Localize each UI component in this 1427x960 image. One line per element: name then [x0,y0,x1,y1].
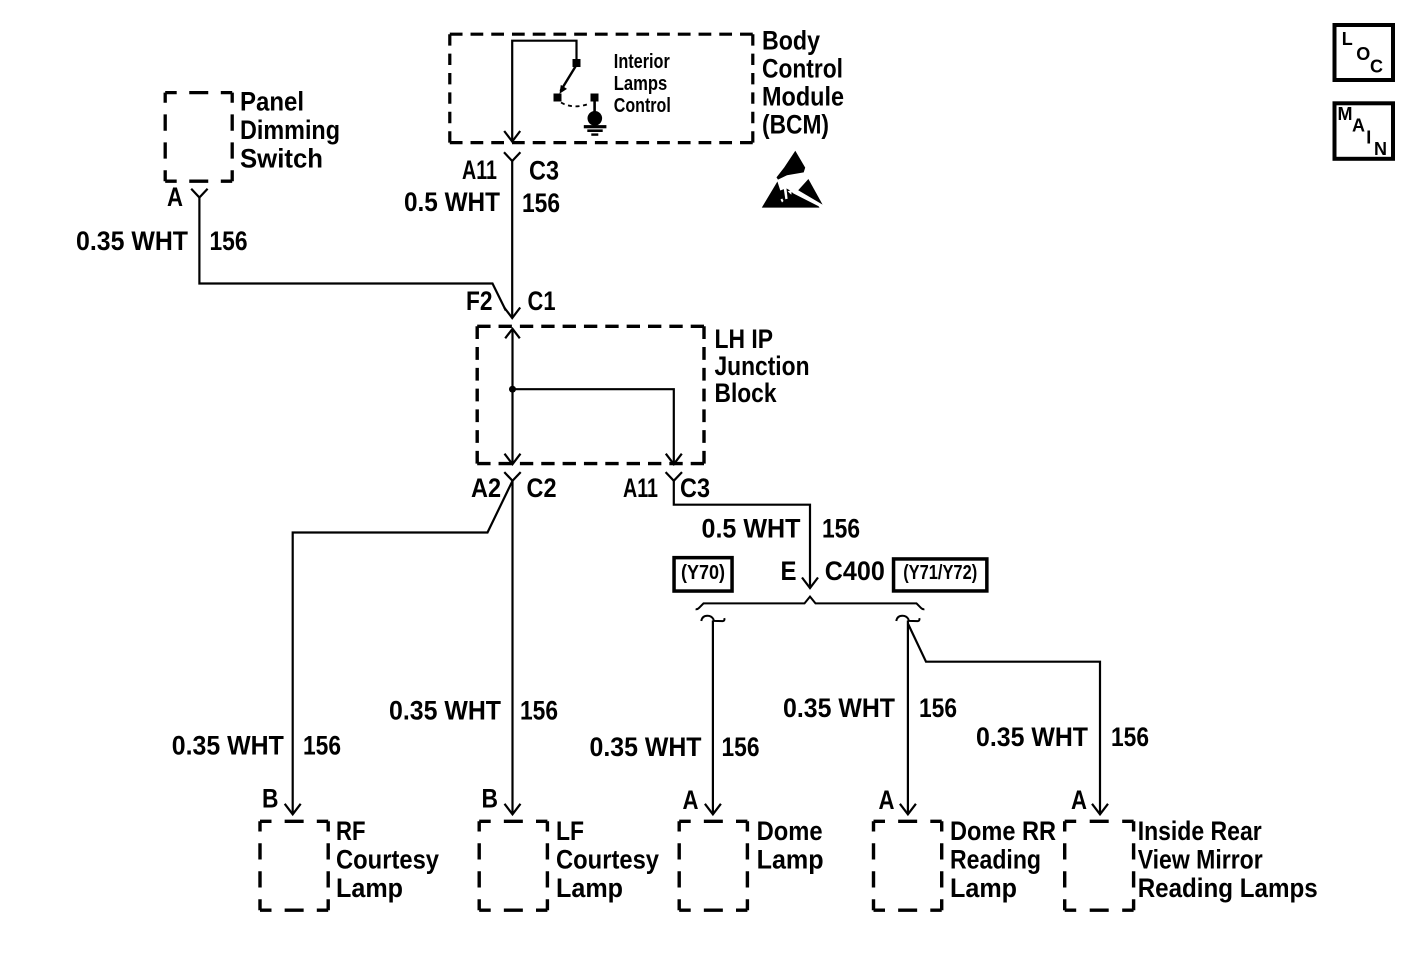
MAIN page reference box [1335,103,1394,159]
switch lever with arrow (interior lamps control) [560,67,576,94]
svg-text:L: L [1342,29,1353,49]
svg-text:156: 156 [520,696,558,726]
svg-text:M: M [1338,104,1353,124]
svg-text:0.35 WHT: 0.35 WHT [389,696,501,726]
svg-text:LH IP: LH IP [715,324,774,354]
pin A inside rear view mirror [1071,785,1087,815]
junction dot node inside junction block [509,386,516,393]
pin A dome RR reading lamp [879,785,895,815]
arrow down at dome RR reading lamp [900,804,916,815]
panel dimming switch box [165,93,232,182]
wire 0.35 WHT 156 to dome lamp [712,621,714,815]
arrow down at LF courtesy lamp [505,804,521,815]
svg-text:Dome: Dome [757,816,823,846]
arrow down at E C400 [802,578,818,589]
splice pigtail hook dome RR reading lamp [896,616,919,621]
svg-text:Interior: Interior [614,51,670,73]
wire branch inside junction block to A11 C3 [513,389,674,464]
wire inside junction block vertical [511,329,513,464]
LF courtesy lamp box [479,821,547,910]
connector reference box (Y71/Y72) [894,559,987,591]
svg-text:C: C [1370,57,1383,77]
LH IP junction block box [477,326,704,463]
pin A dome lamp [683,785,699,815]
actuator stem [593,102,596,113]
svg-text:A2: A2 [471,473,501,503]
wire label 0.35 WHT 156 dome branch [590,732,760,762]
svg-text:Lamp: Lamp [950,873,1017,903]
label Inside Rear View Mirror Reading Lamps [1138,816,1318,903]
svg-text:RF: RF [336,816,366,846]
svg-text:B: B [262,784,279,814]
svg-text:(Y71/Y72): (Y71/Y72) [903,562,977,584]
svg-text:Control: Control [614,95,671,117]
svg-text:0.5 WHT: 0.5 WHT [404,187,500,217]
dome RR reading lamp box [874,821,942,910]
svg-text:Reading Lamps: Reading Lamps [1138,873,1318,903]
label Dome RR Reading Lamp [950,816,1056,903]
svg-text:0.5 WHT: 0.5 WHT [702,514,801,544]
svg-text:A11: A11 [623,473,658,503]
svg-text:Courtesy: Courtesy [556,845,659,875]
svg-text:Control: Control [762,54,843,84]
pin F2 C1 junction block input [466,286,556,316]
svg-text:0.35 WHT: 0.35 WHT [76,226,188,256]
connector reference box (Y70) [674,558,732,591]
wire label 0.35 WHT 156 dome RR branch [783,693,957,723]
arrow down at A2 C2 output [505,454,521,465]
pin A11 C3 below BCM [462,155,559,186]
svg-text:C3: C3 [680,473,710,503]
label LF Courtesy Lamp [556,816,659,903]
LOC page reference box [1335,25,1394,80]
label Interior Lamps Control [614,51,671,117]
svg-text:Dimming: Dimming [240,115,340,145]
svg-text:A11: A11 [462,155,497,185]
inside rear view mirror reading lamps box [1065,821,1134,910]
svg-text:0.35 WHT: 0.35 WHT [590,732,702,762]
svg-text:Module: Module [762,82,844,112]
body control module BCM box [450,34,753,142]
connector Y terminal A2 C2 [504,472,520,481]
pin A2 C2 [471,473,557,503]
wire label 0.5 WHT 156 BCM branch [404,187,560,218]
connector Y terminal A11 C3 below BCM [504,152,520,161]
svg-text:B: B [482,784,499,814]
svg-text:E: E [781,556,797,586]
svg-text:156: 156 [1111,722,1149,752]
svg-text:Panel: Panel [240,87,304,117]
svg-text:C2: C2 [527,473,557,503]
svg-text:F2: F2 [466,286,493,316]
label Body Control Module (BCM) [762,26,844,140]
label RF Courtesy Lamp [336,816,439,903]
wire 0.5 WHT 156 from BCM to junction block [511,161,513,318]
svg-text:Lamp: Lamp [336,873,403,903]
svg-text:C400: C400 [825,556,885,586]
svg-text:Lamp: Lamp [757,845,824,875]
pin A11 C3 junction block [623,473,710,503]
wire label 0.35 WHT 156 LF branch [389,696,558,726]
label LH IP Junction Block [715,324,810,408]
svg-text:A: A [683,785,699,815]
svg-text:O: O [1356,44,1370,64]
actuator square (interior lamps control) [591,94,599,102]
svg-text:LF: LF [556,816,584,846]
svg-text:156: 156 [722,732,760,762]
svg-text:Reading: Reading [950,845,1041,875]
arrow down at dome lamp [705,804,721,815]
svg-text:C3: C3 [529,156,559,186]
arrow down at inside rear view mirror [1092,804,1108,815]
svg-text:156: 156 [522,188,560,218]
svg-text:Inside Rear: Inside Rear [1138,816,1262,846]
pin A panel dimming switch [167,182,183,212]
arrow down at BCM internal output [504,131,520,142]
svg-text:Courtesy: Courtesy [336,845,439,875]
svg-text:156: 156 [303,731,341,761]
svg-text:Dome RR: Dome RR [950,816,1056,846]
pin B RF courtesy lamp [262,784,279,814]
wire inside BCM interior lamps control [512,41,576,141]
svg-text:A: A [167,182,183,212]
wire 0.35 WHT 156 to RF courtesy lamp [293,481,513,814]
pin E C400 [781,556,885,586]
wire 0.35 WHT 156 to inside rear view mirror [908,624,1100,815]
label LOC [1342,29,1383,77]
RF courtesy lamp box [260,821,328,910]
pin B LF courtesy lamp [482,784,499,814]
dome lamp box [679,821,747,910]
label Panel Dimming Switch [240,87,340,174]
svg-text:Body: Body [762,26,820,56]
svg-text:A: A [1071,785,1087,815]
wire label 0.35 WHT 156 mirror branch [976,722,1149,752]
actuator ball [588,111,603,126]
wire 0.35 WHT 156 to dome RR reading lamp [907,621,909,815]
svg-text:0.35 WHT: 0.35 WHT [783,693,895,723]
svg-text:View Mirror: View Mirror [1138,845,1263,875]
svg-text:156: 156 [919,693,957,723]
wire label 0.35 WHT 156 panel branch [76,226,248,256]
svg-text:Lamp: Lamp [556,873,623,903]
svg-text:0.35 WHT: 0.35 WHT [172,731,284,761]
svg-text:A: A [879,785,895,815]
switch contact square lower (interior lamps control) [554,94,562,102]
arrow down at A11 C3 output [666,454,682,465]
wire 0.35 WHT 156 to LF courtesy lamp [511,481,513,814]
svg-text:C1: C1 [528,286,556,316]
wire 0.35 WHT 156 from panel dimming switch to junction block [199,198,505,311]
actuator ground bar 2 [587,129,602,132]
svg-text:(Y70): (Y70) [681,562,725,584]
arrow down at RF courtesy lamp [285,804,301,815]
svg-text:156: 156 [210,226,248,256]
ESD sensitive device symbol (triangle with hand) [762,151,823,208]
svg-text:Switch: Switch [240,144,323,174]
splice pigtail hook dome lamp [701,616,724,621]
svg-text:N: N [1374,139,1387,159]
wire 0.5 WHT 156 from junction block to C400 [674,481,810,586]
arrow up inside junction block [505,329,520,339]
connector Y terminal A panel dimming switch [191,189,207,198]
actuator ground bar 1 [584,125,607,128]
connector Y terminal A11 C3 junction block [666,472,682,481]
svg-text:Junction: Junction [715,351,810,381]
svg-text:Lamps: Lamps [614,73,668,95]
label MAIN [1338,104,1388,159]
actuator ground bar 3 [591,133,598,135]
connector C400 brace [696,597,925,610]
dashed actuating link (interior lamps control) [561,103,589,107]
svg-text:I: I [1366,128,1371,148]
switch contact square upper (interior lamps control) [573,59,581,67]
svg-text:156: 156 [822,514,860,544]
arrow down at F2 C1 junction block input [504,308,520,319]
wire label 0.35 WHT 156 RF branch [172,731,341,761]
svg-text:Block: Block [715,378,778,408]
wire label 0.5 WHT 156 C400 branch [702,514,861,544]
svg-text:(BCM): (BCM) [762,110,829,140]
svg-text:A: A [1352,116,1365,136]
svg-text:0.35 WHT: 0.35 WHT [976,722,1088,752]
label Dome Lamp [757,816,824,875]
